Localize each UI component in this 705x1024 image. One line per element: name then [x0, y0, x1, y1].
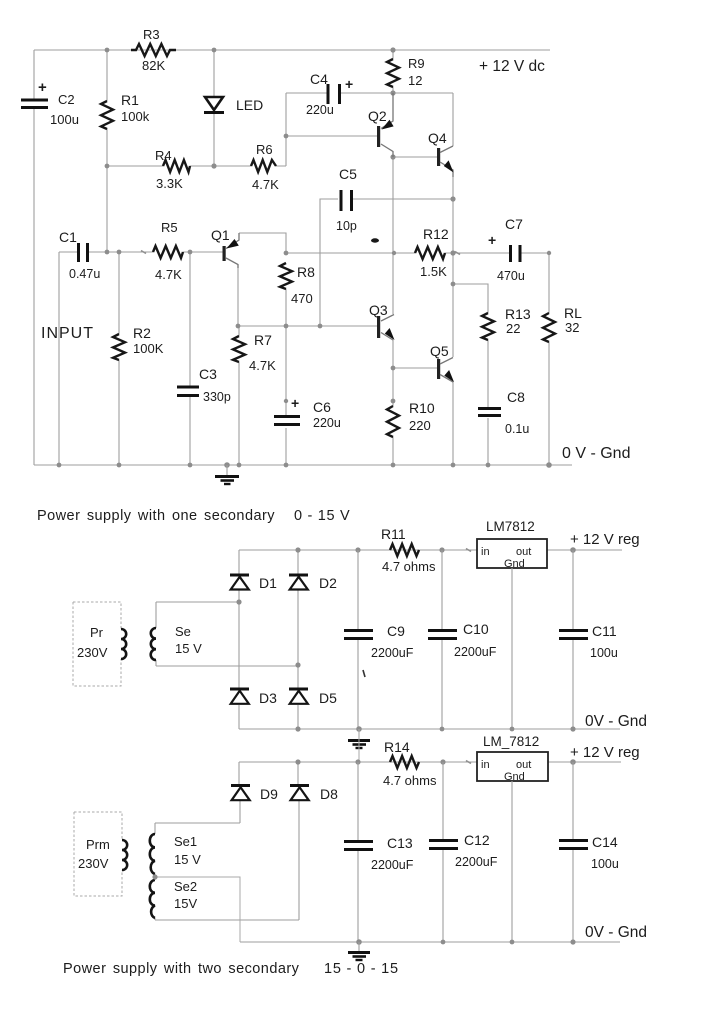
wire: secondary bottom wire [156, 665, 298, 666]
inductor secondary Se coil [151, 628, 156, 660]
svg-text:C11: C11 [592, 623, 617, 639]
svg-text:R7: R7 [254, 332, 272, 348]
capacitor C3 [177, 366, 231, 404]
svg-text:15V: 15V [174, 896, 197, 911]
capacitor C12 [429, 762, 498, 942]
svg-text:C8: C8 [507, 389, 525, 405]
svg-text:C14: C14 [592, 834, 618, 850]
svg-text:Se2: Se2 [174, 879, 197, 894]
resistor R12 [415, 226, 449, 279]
svg-text:D5: D5 [319, 690, 337, 706]
svg-text:Power supply with one seconda: Power supply with one secondary [37, 508, 275, 524]
capacitor C2 [21, 79, 79, 127]
wire: Q3 emitter down to R10 [392, 340, 394, 465]
diode D5 [289, 689, 337, 706]
resistor RL [543, 305, 582, 342]
wire: Q1 emitter column [237, 265, 239, 326]
svg-text:D1: D1 [259, 575, 277, 591]
wire: C3 column [189, 252, 191, 465]
wire: R2 column [118, 252, 120, 465]
svg-text:15 V: 15 V [175, 641, 202, 656]
wire: Q2 base wire [286, 135, 378, 137]
svg-text:INPUT: INPUT [41, 325, 94, 342]
svg-text:+ 12 V dc: + 12 V dc [479, 58, 545, 75]
wire: R7 column [238, 326, 240, 465]
wire: Se1 top wire [155, 822, 240, 824]
svg-text:in: in [481, 546, 490, 558]
diode D3 [230, 689, 277, 706]
svg-text:100u: 100u [591, 857, 619, 871]
svg-text:0V - Gnd: 0V - Gnd [585, 713, 647, 730]
svg-text:230V: 230V [77, 645, 108, 660]
node: bridge junctions [236, 547, 300, 731]
svg-text:4.7 ohms: 4.7 ohms [382, 559, 436, 574]
ground symbol supply2 [348, 942, 370, 960]
svg-text:D2: D2 [319, 575, 337, 591]
wire: right column x=453 lower [452, 177, 454, 465]
svg-text:0 V - Gnd: 0 V - Gnd [562, 445, 630, 462]
svg-text:Se: Se [175, 624, 191, 639]
svg-text:32: 32 [565, 320, 579, 335]
resistor R4 [155, 148, 190, 191]
wire: C5 left branch [320, 199, 338, 326]
svg-text:100K: 100K [133, 341, 164, 356]
diode D9 [231, 786, 278, 803]
svg-text:R10: R10 [409, 400, 435, 416]
transistor Q2 [368, 93, 394, 157]
node: Q5 base node [391, 366, 396, 371]
resistor R3 [131, 27, 176, 73]
svg-text:out: out [516, 546, 531, 558]
svg-text:Prm: Prm [86, 837, 110, 852]
svg-text:Se1: Se1 [174, 834, 197, 849]
svg-text:Power supply with two seconda: Power supply with two secondary [63, 961, 300, 977]
wire: LM_7812 gnd line [511, 781, 513, 942]
inductor primary Pr coil [121, 629, 126, 659]
svg-text:220: 220 [409, 418, 431, 433]
capacitor C5 [336, 166, 357, 233]
node: supply1 bottom rail junctions [356, 726, 575, 732]
wire: link from middle gnd rail to supply2 rail [358, 729, 360, 762]
svg-text:Gnd: Gnd [504, 558, 525, 570]
svg-text:LM7812: LM7812 [486, 519, 535, 534]
svg-text:R1: R1 [121, 92, 139, 108]
wire: Q2 emitter to Q4 base [393, 156, 437, 158]
diode D2 [289, 575, 337, 591]
svg-text:2200uF: 2200uF [371, 858, 414, 872]
svg-text:22: 22 [506, 321, 520, 336]
svg-text:C12: C12 [464, 832, 490, 848]
wire: Q1 collector loop to R8 top [239, 233, 286, 253]
svg-text:D8: D8 [320, 786, 338, 802]
svg-text:82K: 82K [142, 58, 165, 73]
svg-text:R14: R14 [384, 739, 410, 755]
svg-text:R6: R6 [256, 142, 273, 157]
svg-text:out: out [516, 759, 531, 771]
wire: Se2 bottom wire [155, 919, 299, 921]
svg-text:100k: 100k [121, 109, 150, 124]
svg-text:4.7 ohms: 4.7 ohms [383, 773, 437, 788]
svg-text:R5: R5 [161, 220, 178, 235]
node: center tap [152, 874, 157, 879]
svg-text:C5: C5 [339, 166, 357, 182]
artifact ink blob [371, 238, 379, 242]
svg-text:330p: 330p [203, 390, 231, 404]
wire: R9 column [392, 50, 394, 93]
inductor secondary Se1 coil [150, 834, 155, 874]
svg-text:2200uF: 2200uF [455, 855, 498, 869]
svg-text:4.7K: 4.7K [155, 267, 182, 282]
svg-text:C4: C4 [310, 71, 328, 87]
ground symbol supply1 [348, 729, 370, 748]
node: R10 top [391, 399, 396, 404]
LED diode [204, 97, 263, 113]
svg-text:Q5: Q5 [430, 343, 449, 359]
svg-text:R12: R12 [423, 226, 449, 242]
svg-text:C13: C13 [387, 835, 413, 851]
svg-text:C9: C9 [387, 623, 405, 639]
inductor primary Prm coil [122, 840, 127, 870]
svg-text:C6: C6 [313, 399, 331, 415]
wire: Q2 emitter column down to Q3 [392, 157, 394, 314]
inductor secondary Se2 coil [150, 880, 155, 918]
svg-text:4.7K: 4.7K [252, 177, 279, 192]
svg-text:C2: C2 [58, 92, 75, 107]
resistor R5 [153, 220, 183, 282]
diode D8 [290, 786, 338, 803]
resistor R10 [387, 400, 435, 437]
node: Q2 emitter junction [390, 154, 395, 159]
capacitor C4 [306, 71, 353, 117]
resistor R2 [113, 325, 164, 360]
wire: C1 to R5 to Q1 base [88, 251, 223, 253]
transformer primary box Pr [73, 602, 121, 686]
wire: LED column [213, 50, 215, 166]
svg-text:+ 12 V reg: + 12 V reg [570, 531, 640, 548]
resistor R13 [482, 306, 531, 340]
svg-text:LM_7812: LM_7812 [483, 734, 539, 749]
svg-text:C7: C7 [505, 216, 523, 232]
wire: R1 column [106, 50, 108, 252]
node: input nodes [105, 250, 193, 255]
node: rail junction dots top [105, 47, 396, 52]
wire: center tap to bottom rail [155, 877, 240, 942]
transformer primary box Prm [74, 812, 122, 896]
node: C7 right corner [547, 251, 551, 255]
node: C6 top [284, 399, 288, 403]
svg-text:RL: RL [564, 305, 582, 321]
capacitor C7 [488, 216, 525, 283]
wire: D9 column [239, 762, 240, 823]
wire: +12V top rail [34, 49, 550, 51]
svg-text:2200uF: 2200uF [454, 645, 497, 659]
svg-text:+ 12 V reg: + 12 V reg [570, 744, 640, 761]
wire: R8 bottom to C6 column [285, 289, 287, 465]
svg-text:LED: LED [236, 97, 263, 113]
node: R9 bottom [390, 90, 395, 95]
node: supply2 bottom rail junctions [356, 939, 575, 945]
svg-text:R13: R13 [505, 306, 531, 322]
wire: C4 rail y=93 [286, 92, 453, 94]
svg-text:R2: R2 [133, 325, 151, 341]
capacitor C13 [344, 762, 414, 942]
wire: secondary coil stubs [155, 602, 157, 666]
wire: rail y=253 R8 to R12 to C7 [286, 252, 453, 254]
node: R4 rail junctions [105, 163, 217, 168]
node: C5 right [450, 196, 455, 201]
wire: R13 branch [453, 284, 488, 465]
capacitor C6 [274, 395, 341, 430]
wire: left vertical rail [33, 50, 35, 465]
svg-text:R8: R8 [297, 264, 315, 280]
wire: rail y=326 to Q3 base [238, 325, 378, 327]
svg-text:+: + [291, 395, 299, 411]
resistor R1 [101, 92, 150, 129]
wire tick marks [141, 251, 471, 764]
diode D1 [230, 575, 277, 591]
node: supply2 top rail junctions [295, 759, 575, 765]
resistor R14 [383, 739, 437, 788]
svg-text:+: + [38, 79, 47, 96]
svg-text:R11: R11 [381, 526, 406, 542]
svg-text:470: 470 [291, 291, 313, 306]
svg-text:in: in [481, 759, 490, 771]
svg-text:4.7K: 4.7K [249, 358, 276, 373]
wire: Se1/Se2 coil stubs [154, 823, 156, 920]
node: Q2 base tap [284, 134, 289, 139]
wire: LM7812 gnd line [511, 568, 513, 729]
svg-text:12: 12 [408, 73, 422, 88]
regulator U2 LM_7812 [477, 734, 548, 783]
svg-text:0.47u: 0.47u [69, 267, 100, 281]
svg-text:D9: D9 [260, 786, 278, 802]
svg-text:15 V: 15 V [174, 852, 201, 867]
wire: D1/D3 column [238, 550, 240, 729]
transistor Q5 [430, 343, 454, 382]
svg-text:2200uF: 2200uF [371, 646, 414, 660]
wire: input source vertical [58, 252, 60, 465]
resistor R6 [251, 142, 279, 192]
node: R12 terminals [392, 250, 456, 255]
svg-text:+: + [345, 76, 353, 92]
wire: input wire to C1 [59, 251, 77, 253]
transistor Q3 [369, 302, 395, 340]
svg-text:Q3: Q3 [369, 302, 388, 318]
capacitor C11 [559, 550, 618, 729]
wire: supply1 top rail [239, 549, 622, 551]
resistor R8 [280, 263, 315, 306]
node: bottom rail junctions [57, 462, 552, 468]
wire: supply2 bottom rail [240, 941, 620, 943]
svg-text:R9: R9 [408, 56, 425, 71]
resistor R11 [381, 526, 436, 574]
svg-text:470u: 470u [497, 269, 525, 283]
transistor Q4 [428, 130, 454, 177]
wire: 0V bottom rail of amplifier [34, 464, 572, 466]
capacitor C14 [559, 762, 619, 942]
node: C9 top / C10 top / out node [355, 547, 575, 553]
svg-text:220u: 220u [306, 103, 334, 117]
svg-text:0.1u: 0.1u [505, 422, 529, 436]
wire: supply2 top rail [239, 761, 621, 763]
wire: supply1 bottom rail [239, 728, 620, 730]
node: rail y=326 junctions [236, 324, 323, 329]
svg-text:100u: 100u [50, 112, 79, 127]
svg-text:D3: D3 [259, 690, 277, 706]
wire: R4/R6 rail [107, 165, 286, 167]
svg-text:Pr: Pr [90, 625, 104, 640]
node: R13 tap [451, 282, 456, 287]
svg-text:15 - 0 - 15: 15 - 0 - 15 [324, 961, 399, 977]
artifact small mark [363, 670, 365, 677]
svg-text:230V: 230V [78, 856, 109, 871]
svg-text:Q2: Q2 [368, 108, 387, 124]
wire: secondary top wire [156, 601, 239, 603]
svg-text:220u: 220u [313, 416, 341, 430]
svg-text:Q4: Q4 [428, 130, 447, 146]
ground symbol amplifier [215, 465, 239, 484]
svg-text:100u: 100u [590, 646, 618, 660]
svg-text:0 - 15 V: 0 - 15 V [294, 508, 350, 524]
wire: right column x=453 upper [452, 93, 454, 146]
wire: C5 right wire [352, 198, 453, 200]
wire: D2/D5 column [297, 550, 299, 729]
svg-text:R4: R4 [155, 148, 172, 163]
capacitor C1 [59, 229, 100, 281]
svg-text:Gnd: Gnd [504, 771, 525, 783]
node: R8 top [284, 251, 289, 256]
wire: D8 column [298, 762, 299, 920]
transistor Q1 [211, 227, 239, 268]
svg-text:C1: C1 [59, 229, 77, 245]
svg-text:C3: C3 [199, 366, 217, 382]
capacitor C10 [428, 550, 497, 729]
svg-text:Q1: Q1 [211, 227, 230, 243]
svg-text:R3: R3 [143, 27, 160, 42]
capacitor C9 [344, 550, 414, 729]
wire: vertical from R6 up to C4 line [285, 93, 287, 166]
svg-text:+: + [488, 232, 496, 248]
svg-text:3.3K: 3.3K [156, 176, 183, 191]
svg-text:C10: C10 [463, 621, 489, 637]
svg-text:1.5K: 1.5K [420, 264, 447, 279]
resistor R9 [387, 56, 425, 88]
wire: C7 branch and RL column [453, 253, 549, 465]
regulator U1 LM7812 [477, 519, 547, 570]
capacitor C8 [478, 389, 529, 436]
wire: Q5 base wire [393, 367, 438, 369]
svg-text:10p: 10p [336, 219, 357, 233]
svg-text:0V - Gnd: 0V - Gnd [585, 924, 647, 941]
resistor R7 [233, 332, 276, 373]
